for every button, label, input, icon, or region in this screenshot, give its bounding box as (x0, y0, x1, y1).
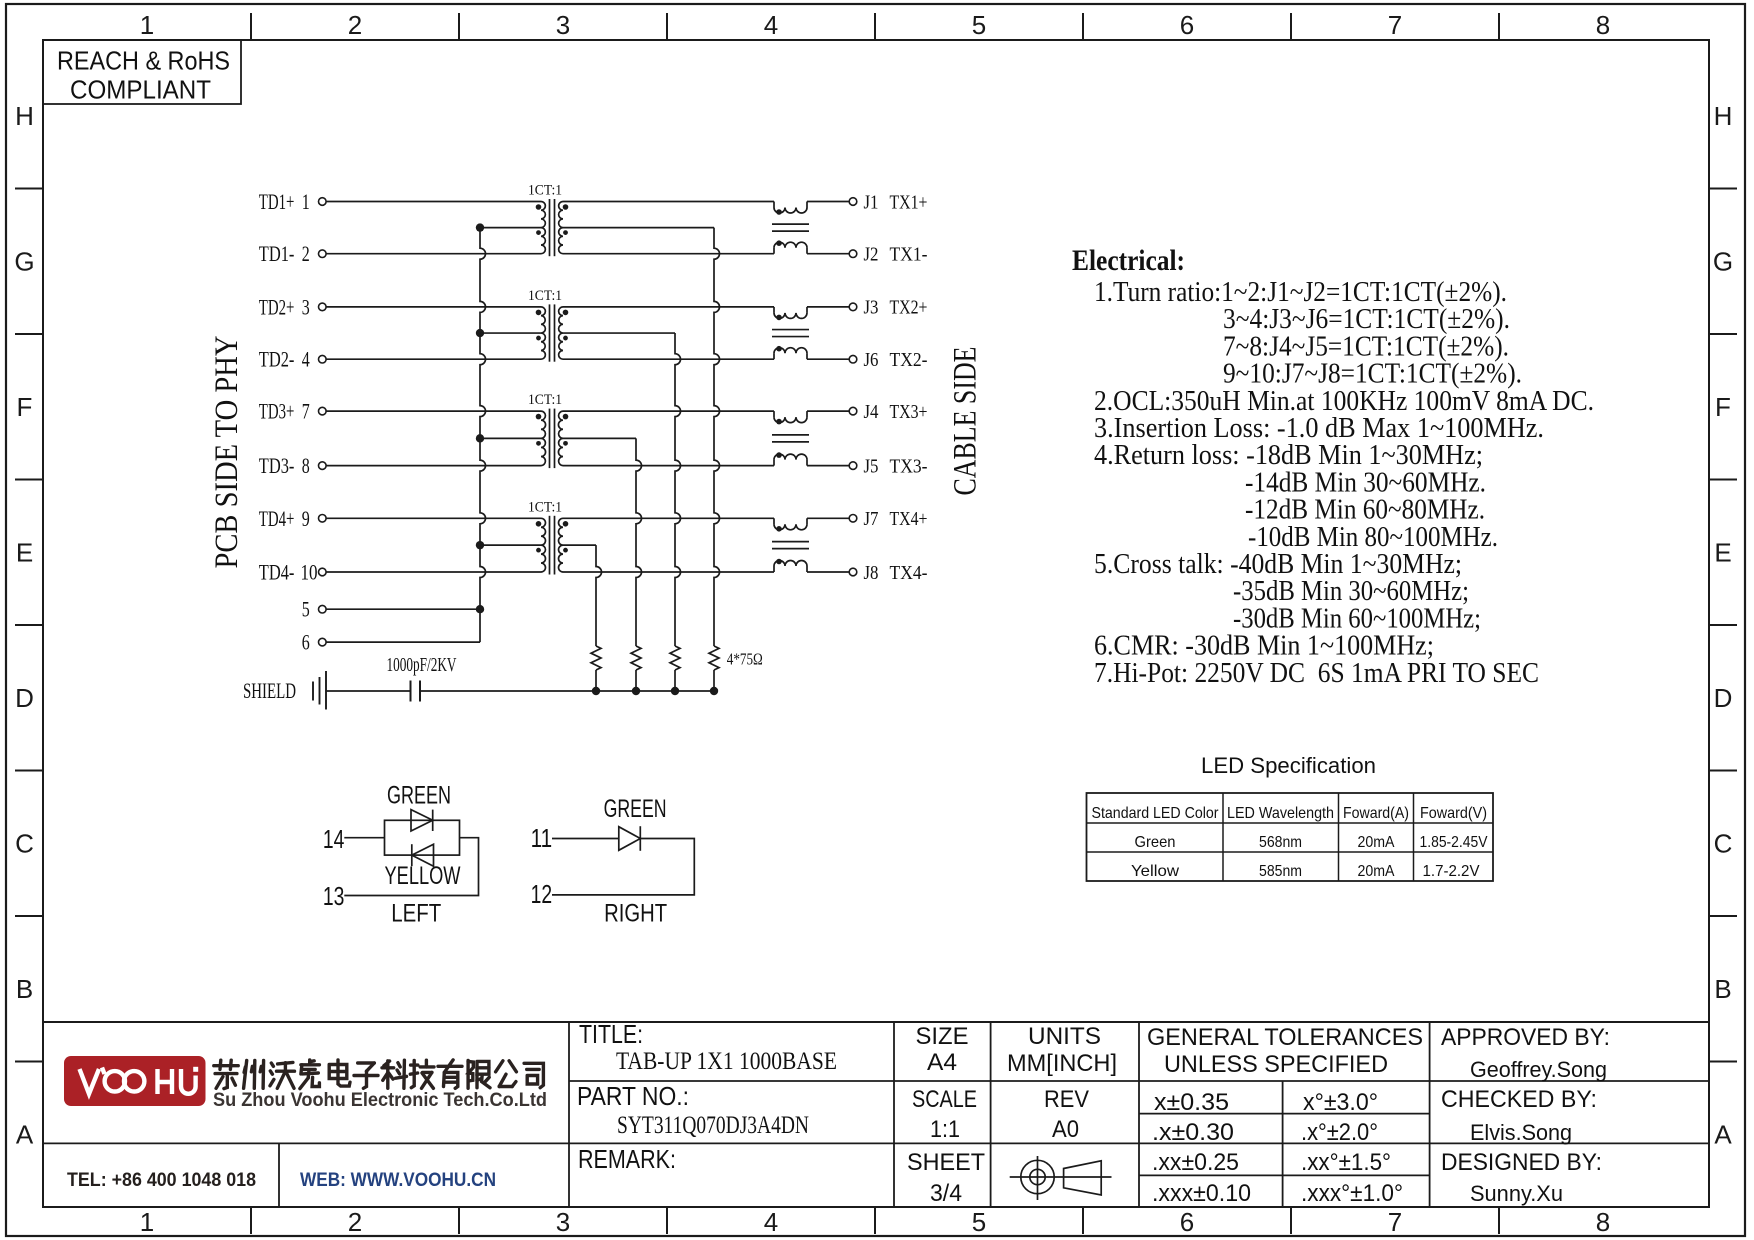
junction R1 shield bus (710, 687, 718, 695)
wire transformer secondary to choke row J3 (563, 306, 774, 308)
svg-text:Geoffrey.Song: Geoffrey.Song (1470, 1057, 1607, 1082)
svg-text:1CT:1: 1CT:1 (528, 288, 562, 304)
wire R2 to shield bus (674, 670, 676, 691)
svg-text:J6: J6 (864, 349, 879, 371)
svg-text:D: D (1714, 683, 1733, 713)
pin 1 node TD1+ (259, 189, 326, 214)
pin 4 node TD2- (259, 347, 326, 372)
svg-text:1CT:1: 1CT:1 (528, 392, 562, 408)
svg-text:B: B (1714, 974, 1731, 1004)
svg-text:5: 5 (302, 597, 310, 622)
APPROVED BY cell (1441, 1024, 1610, 1082)
svg-text:Electrical:: Electrical: (1072, 244, 1185, 277)
svg-text:6: 6 (302, 630, 310, 655)
pin 9 node TD4+ (259, 506, 326, 531)
svg-text:.xxx±0.10: .xxx±0.10 (1152, 1180, 1251, 1207)
svg-text:TD3-: TD3- (259, 453, 295, 478)
transformer T3 1CT:1 (528, 392, 568, 468)
svg-text:SHIELD: SHIELD (243, 678, 296, 703)
DESIGNED BY cell (1441, 1149, 1602, 1206)
wire choke to pin J6 (807, 358, 849, 360)
pin 5 node (302, 597, 326, 622)
wire LED pack to pin 13 (344, 838, 478, 896)
pin J7 node TX4+ (849, 508, 927, 530)
GENERAL TOLERANCES header (1147, 1024, 1423, 1078)
svg-text:E: E (16, 538, 33, 568)
svg-text:8: 8 (1596, 10, 1610, 40)
pin J1 node TX1+ (849, 191, 927, 213)
svg-text:TX2-: TX2- (890, 349, 928, 371)
wire R4 to shield bus (595, 670, 597, 691)
svg-text:4: 4 (302, 347, 310, 372)
svg-text:1: 1 (302, 189, 310, 214)
common-mode choke L3 (772, 411, 809, 466)
LED D2 YELLOW (left) (385, 844, 461, 890)
svg-text:RIGHT: RIGHT (604, 900, 667, 928)
common-mode choke L2 (772, 307, 809, 359)
svg-text:TAB-UP 1X1 1000BASE: TAB-UP 1X1 1000BASE (616, 1048, 837, 1075)
svg-text:Standard LED Color: Standard LED Color (1092, 805, 1220, 822)
TITLE cell (579, 1019, 837, 1075)
wire transformer secondary to choke row J7 (563, 517, 774, 519)
svg-text:1CT:1: 1CT:1 (528, 499, 562, 515)
resistor R2 75ohm (670, 646, 680, 670)
pin 6 node (302, 630, 326, 655)
capacitor C1 1000pF/2KV (387, 654, 457, 702)
svg-text:GREEN: GREEN (387, 782, 451, 810)
wire TD3- to transformer primary (327, 465, 542, 467)
svg-text:J8: J8 (864, 562, 879, 584)
svg-text:7: 7 (1388, 10, 1402, 40)
svg-text:B: B (16, 974, 33, 1004)
wire capacitor to resistor bus (420, 690, 714, 692)
svg-text:J1: J1 (864, 191, 879, 213)
svg-text:TX4+: TX4+ (890, 508, 928, 530)
REACH & RoHS compliance box (43, 40, 241, 105)
junction pin5 on bus (476, 605, 484, 613)
LED D3 GREEN (right) (604, 795, 667, 851)
svg-text:4*75Ω: 4*75Ω (727, 650, 763, 669)
svg-text:TD2+: TD2+ (259, 294, 295, 319)
svg-text:F: F (17, 392, 33, 422)
svg-text:2: 2 (348, 1207, 362, 1237)
pin 8 node TD3- (259, 453, 326, 478)
svg-text:APPROVED BY:: APPROVED BY: (1441, 1024, 1610, 1051)
svg-text:G: G (1713, 247, 1733, 277)
svg-text:1CT:1: 1CT:1 (528, 183, 562, 199)
svg-text:TD4-: TD4- (259, 560, 295, 585)
wire pin 14 to LED pack (344, 837, 384, 839)
svg-text:Foward(A): Foward(A) (1343, 805, 1409, 822)
wire pin 6 to center-tap bus corner (327, 641, 481, 643)
svg-text:TEL: +86 400 1048 018: TEL: +86 400 1048 018 (67, 1170, 256, 1191)
pin J4 node TX3+ (849, 401, 927, 423)
wire transformer secondary to choke row J5 (563, 465, 774, 467)
svg-text:8: 8 (302, 453, 310, 478)
svg-text:Foward(V): Foward(V) (1420, 805, 1487, 822)
svg-text:H: H (1714, 101, 1733, 131)
svg-text:H: H (15, 101, 34, 131)
svg-text:1: 1 (140, 1207, 154, 1237)
svg-text:TX3-: TX3- (890, 455, 928, 477)
pin 7 node TD3+ (259, 399, 326, 424)
svg-text:.xx±0.25: .xx±0.25 (1152, 1149, 1239, 1176)
wire transformer secondary to choke row J6 (563, 358, 774, 360)
svg-text:11: 11 (531, 823, 553, 853)
junction R3 shield bus (632, 687, 640, 695)
svg-text:TD2-: TD2- (259, 347, 295, 372)
svg-text:3/4: 3/4 (930, 1180, 962, 1207)
wire choke to pin J1 (807, 201, 849, 203)
svg-text:.x±0.30: .x±0.30 (1152, 1119, 1234, 1146)
svg-text:E: E (1714, 538, 1731, 568)
svg-text:2: 2 (348, 10, 362, 40)
svg-text:.xx°±1.5°: .xx°±1.5° (1301, 1149, 1391, 1176)
svg-text:TX3+: TX3+ (890, 401, 928, 423)
svg-text:LED Specification: LED Specification (1201, 753, 1376, 778)
company logo VOOHU (64, 1056, 206, 1106)
wire transformer secondary to choke row J8 (563, 571, 774, 573)
svg-text:585nm: 585nm (1259, 863, 1302, 880)
svg-text:10: 10 (301, 560, 318, 585)
svg-text:J5: J5 (864, 455, 879, 477)
svg-text:GREEN: GREEN (604, 795, 667, 823)
svg-text:4: 4 (764, 10, 778, 40)
resistor R3 75ohm (631, 646, 641, 670)
svg-text:1: 1 (140, 10, 154, 40)
svg-text:G: G (14, 247, 34, 277)
svg-text:COMPLIANT: COMPLIANT (70, 75, 211, 105)
svg-text:7: 7 (302, 399, 310, 424)
junction R2 shield bus (671, 687, 679, 695)
svg-text:6: 6 (1180, 10, 1194, 40)
svg-text:1000pF/2KV: 1000pF/2KV (387, 654, 457, 676)
common-mode choke L1 (772, 202, 809, 254)
pin J6 node TX2- (849, 349, 927, 371)
LED circuit RIGHT: pin 11 (531, 823, 553, 853)
wire choke to pin J3 (807, 306, 849, 308)
wire choke to pin J4 (807, 410, 849, 412)
wire choke to pin J7 (807, 517, 849, 519)
title block grid (43, 1022, 1709, 1207)
svg-text:SHEET: SHEET (907, 1149, 985, 1176)
transformer T4 1CT:1 (528, 499, 568, 574)
svg-text:F: F (1715, 392, 1731, 422)
svg-text:PART NO.:: PART NO.: (577, 1081, 689, 1111)
svg-text:Elvis.Song: Elvis.Song (1470, 1120, 1572, 1145)
wire TD4+ to transformer primary (327, 517, 542, 519)
svg-text:UNLESS SPECIFIED: UNLESS SPECIFIED (1164, 1051, 1388, 1078)
wire pin 11 to LED D3 (552, 838, 619, 840)
svg-text:3: 3 (556, 10, 570, 40)
svg-text:TD4+: TD4+ (259, 506, 295, 531)
wire secondary CT T2 (563, 332, 675, 334)
wire shield to capacitor (326, 690, 411, 692)
svg-text:20mA: 20mA (1358, 834, 1395, 851)
svg-text:568nm: 568nm (1259, 834, 1302, 851)
wire choke to pin J8 (807, 571, 849, 573)
svg-text:TX2+: TX2+ (890, 297, 928, 319)
pin J5 node TX3- (849, 455, 927, 477)
pin J8 node TX4- (849, 562, 927, 584)
wire TD1+ to transformer primary (327, 201, 542, 203)
svg-text:8: 8 (1596, 1207, 1610, 1237)
junction primary CT T2 (476, 329, 484, 337)
wire LED D3 to pin 12 (552, 839, 694, 895)
svg-text:13: 13 (323, 881, 345, 911)
svg-text:14: 14 (323, 824, 345, 854)
wire TD2- to transformer primary (327, 358, 542, 360)
svg-text:J3: J3 (864, 297, 879, 319)
wire primary CT T4 (480, 544, 541, 546)
svg-text:TD1-: TD1- (259, 241, 295, 266)
primary center-tap bus wire with hops (480, 228, 486, 642)
svg-text:REV: REV (1044, 1086, 1089, 1113)
wire transformer secondary to choke row J1 (563, 201, 774, 203)
svg-text:TD3+: TD3+ (259, 399, 295, 424)
wire transformer secondary to choke row J2 (563, 253, 774, 255)
svg-text:TX1+: TX1+ (890, 191, 928, 213)
svg-text:A: A (16, 1120, 34, 1150)
svg-text:PCB SIDE TO PHY: PCB SIDE TO PHY (209, 336, 245, 569)
svg-text:SCALE: SCALE (912, 1086, 977, 1113)
transformer T2 1CT:1 (528, 288, 568, 362)
svg-text:WEB: WWW.VOOHU.CN: WEB: WWW.VOOHU.CN (300, 1170, 496, 1191)
svg-text:4: 4 (764, 1207, 778, 1237)
svg-text:LEFT: LEFT (391, 900, 441, 928)
svg-text:1.85-2.45V: 1.85-2.45V (1420, 834, 1488, 851)
resistor R4 75ohm (591, 646, 601, 670)
wire pin 5 to center-tap bus (327, 608, 481, 610)
LED specification table (1087, 753, 1494, 881)
svg-text:7: 7 (1388, 1207, 1402, 1237)
svg-text:x±0.35: x±0.35 (1154, 1089, 1229, 1116)
svg-text:SIZE: SIZE (916, 1023, 969, 1050)
svg-text:x°±3.0°: x°±3.0° (1303, 1089, 1378, 1116)
SCALE cell (912, 1086, 977, 1143)
junction primary CT T1 (476, 223, 484, 231)
PART NO cell (577, 1081, 809, 1139)
svg-text:9: 9 (302, 506, 310, 531)
wire R1 to shield bus (713, 670, 715, 691)
svg-text:Su Zhou Voohu Electronic Tech.: Su Zhou Voohu Electronic Tech.Co.Ltd (213, 1090, 547, 1111)
LED circuit LEFT: pin 14 (323, 824, 345, 854)
pin 10 node TD4- (259, 560, 326, 585)
wire choke to pin J2 (807, 253, 849, 255)
SHEET cell (907, 1149, 985, 1207)
svg-text:.xxx°±1.0°: .xxx°±1.0° (1301, 1180, 1403, 1207)
svg-text:TX1-: TX1- (890, 244, 928, 266)
svg-text:2: 2 (302, 241, 310, 266)
svg-text:A0: A0 (1052, 1116, 1079, 1143)
svg-text:6: 6 (1180, 1207, 1194, 1237)
wire transformer secondary to choke row J4 (563, 410, 774, 412)
REV cell (1044, 1086, 1089, 1143)
svg-text:A: A (1714, 1120, 1732, 1150)
wire secondary CT T3 (563, 437, 636, 439)
svg-text:DESIGNED BY:: DESIGNED BY: (1441, 1149, 1602, 1176)
Electrical specification notes (1072, 244, 1594, 689)
wire primary CT T3 (480, 437, 541, 439)
svg-text:1:1: 1:1 (930, 1116, 960, 1143)
wire secondary CT drop T1 with hops (714, 228, 720, 646)
svg-text:.x°±2.0°: .x°±2.0° (1301, 1119, 1378, 1146)
svg-text:TD1+: TD1+ (259, 189, 295, 214)
svg-text:TX4-: TX4- (890, 562, 928, 584)
pin J2 node TX1- (849, 244, 927, 266)
svg-text:LED Wavelength: LED Wavelength (1227, 805, 1334, 822)
wire TD2+ to transformer primary (327, 306, 542, 308)
LED pack rectangle LEFT (385, 820, 460, 855)
svg-text:20mA: 20mA (1358, 863, 1395, 880)
svg-text:UNITS: UNITS (1028, 1023, 1101, 1050)
svg-text:TITLE:: TITLE: (579, 1019, 643, 1049)
company name chinese characters (214, 1060, 544, 1089)
svg-text:C: C (15, 829, 34, 859)
svg-text:5: 5 (972, 1207, 986, 1237)
svg-text:Yellow: Yellow (1131, 863, 1179, 880)
svg-text:3: 3 (302, 294, 310, 319)
LED D1 GREEN (left) (387, 782, 451, 832)
pin 2 node TD1- (259, 241, 326, 266)
LED circuit RIGHT: pin 12 (531, 879, 553, 909)
svg-text:C: C (1714, 829, 1733, 859)
svg-text:7.Hi-Pot: 2250V DC 6S 1mA PRI: 7.Hi-Pot: 2250V DC 6S 1mA PRI TO SEC (1094, 658, 1539, 689)
tolerance values (1152, 1089, 1403, 1207)
svg-text:CABLE SIDE: CABLE SIDE (948, 346, 984, 495)
wire secondary CT T1 (563, 227, 714, 229)
wire R3 to shield bus (635, 670, 637, 691)
common-mode choke L4 (772, 518, 809, 572)
wire secondary CT drop T4 with hops (596, 545, 602, 646)
svg-text:J7: J7 (864, 508, 879, 530)
svg-text:1.7-2.2V: 1.7-2.2V (1423, 863, 1480, 880)
svg-text:3: 3 (556, 1207, 570, 1237)
svg-text:YELLOW: YELLOW (385, 862, 461, 890)
wire primary CT T1 (480, 227, 541, 229)
wire primary CT T2 (480, 332, 541, 334)
pin J3 node TX2+ (849, 297, 927, 319)
wire TD1- to transformer primary (327, 253, 542, 255)
svg-text:12: 12 (531, 879, 553, 909)
svg-text:Green: Green (1135, 834, 1176, 851)
svg-text:Sunny.Xu: Sunny.Xu (1470, 1181, 1563, 1206)
wire TD4- to transformer primary (327, 571, 542, 573)
transformer T1 1CT:1 (528, 183, 568, 257)
wire secondary CT drop T3 with hops (636, 438, 642, 646)
shield connector symbol (243, 671, 326, 710)
junction R4 shield bus (592, 687, 600, 695)
wire secondary CT T4 (563, 544, 596, 546)
svg-text:MM[INCH]: MM[INCH] (1007, 1050, 1117, 1077)
junction primary CT T4 (476, 541, 484, 549)
pin 3 node TD2+ (259, 294, 326, 319)
CHECKED BY cell (1441, 1086, 1597, 1145)
svg-text:J2: J2 (864, 244, 879, 266)
svg-text:REMARK:: REMARK: (578, 1144, 676, 1174)
svg-text:REACH & RoHS: REACH & RoHS (57, 46, 230, 76)
svg-text:J4: J4 (864, 401, 879, 423)
resistor R1 75ohm (709, 646, 719, 670)
third angle projection symbol (1010, 1156, 1112, 1200)
wire choke to pin J5 (807, 465, 849, 467)
wire TD3+ to transformer primary (327, 410, 542, 412)
svg-text:5: 5 (972, 10, 986, 40)
UNITS cell (1007, 1023, 1117, 1077)
svg-text:CHECKED BY:: CHECKED BY: (1441, 1086, 1597, 1113)
wire secondary CT drop T2 with hops (675, 333, 681, 646)
junction primary CT T3 (476, 434, 484, 442)
svg-text:A4: A4 (927, 1049, 957, 1076)
svg-text:D: D (15, 683, 34, 713)
svg-text:SYT311Q070DJ3A4DN: SYT311Q070DJ3A4DN (617, 1112, 809, 1139)
svg-text:GENERAL TOLERANCES: GENERAL TOLERANCES (1147, 1024, 1423, 1051)
SIZE cell (916, 1023, 969, 1076)
LED circuit LEFT: pin 13 (323, 881, 345, 911)
